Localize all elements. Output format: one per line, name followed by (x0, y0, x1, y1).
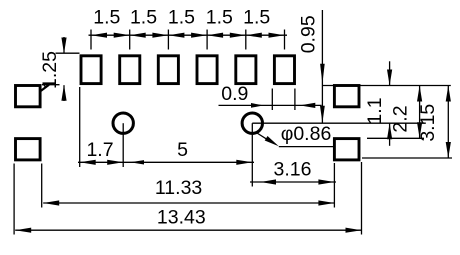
dim line 13.43 (15, 229, 361, 231)
ext line left-bottom-square left edge down (13, 164, 15, 235)
dimension line 1.5 chain (89, 34, 288, 36)
arrowheads 1.5 chain (91, 33, 285, 38)
dim line 0.95 vertical (321, 10, 323, 123)
pad P4 (top row solder pad) (197, 56, 217, 84)
pad P6 (top row solder pad) (274, 56, 294, 84)
label 11.33 (155, 177, 202, 199)
svg-text:2.2: 2.2 (390, 105, 412, 132)
arrow 0.9 right (points left toward pad6 right-edge tick) (300, 103, 316, 108)
svg-text:1.7: 1.7 (86, 139, 113, 161)
oblique tick near square corner (40, 85, 49, 92)
ext line squares top edge right (322, 85, 450, 87)
dim line 1.25 lower tail + arrow (61, 85, 66, 101)
svg-text:1.5: 1.5 (93, 7, 120, 29)
pad P3 (top row solder pad) (158, 56, 178, 84)
svg-text:1.25: 1.25 (39, 51, 61, 89)
leader line from hole H2 (257, 133, 270, 141)
ext line right-bottom-square left edge down (333, 163, 335, 208)
arrow 2.2 bottom (417, 122, 422, 138)
leader underline (279, 146, 334, 148)
mounting pad left-bottom (16, 139, 41, 160)
centerline H1 vertical (122, 123, 124, 167)
arrow 3.15 top (446, 86, 451, 102)
hole H2 (right circle) (242, 113, 262, 133)
svg-text:1.5: 1.5 (130, 7, 157, 29)
dim line 3.16 (250, 181, 336, 183)
leader arrowhead (265, 136, 279, 146)
label 3.15 (rotated) (417, 104, 439, 142)
label 3.16 (274, 158, 312, 180)
labels 1.5 x5 (93, 7, 270, 29)
pad P1 (top row solder pad) (81, 56, 101, 84)
dim line 0.9 (219, 104, 322, 106)
arrow 13.43 right (346, 228, 362, 233)
hole H1 (left circle) (113, 113, 133, 133)
arrow 1.7 right (107, 160, 123, 165)
dim 1.1 upper tail + arrow (387, 61, 392, 85)
dim line 2.2 (419, 86, 421, 139)
ext line square top (for 1.25) (42, 84, 60, 86)
ext tick pad6 left edge (271, 89, 273, 111)
ext line right-bottom-square bottom edge (362, 157, 452, 159)
label 0.95 (rotated) (298, 15, 320, 53)
arrow 11.33 left (43, 200, 59, 205)
label 13.43 (157, 207, 206, 229)
arrow 5 right (236, 160, 252, 165)
svg-text:1.5: 1.5 (243, 7, 270, 29)
extension ticks for 1.5 pitch chain (91, 30, 285, 50)
svg-text:11.33: 11.33 (155, 177, 202, 199)
dim line 1.7+5 (78, 161, 254, 163)
svg-text:1.1: 1.1 (364, 97, 386, 124)
svg-text:5: 5 (177, 139, 188, 161)
svg-text:1.5: 1.5 (206, 7, 233, 29)
arrow 1.7 left (80, 160, 96, 165)
arrow at circle centerline (320, 106, 325, 123)
mounting pad left-top (16, 86, 41, 107)
svg-text:13.43: 13.43 (157, 207, 206, 229)
label 5 (177, 139, 188, 161)
ext line pad1 left edge down (79, 87, 81, 167)
svg-text:3.16: 3.16 (274, 158, 312, 180)
label phi 0.86 (281, 123, 332, 145)
label 2.2 (rotated) (390, 105, 412, 132)
svg-text:3.15: 3.15 (417, 104, 439, 142)
arrow 3.16 right (318, 179, 334, 184)
dim line 11.33 (43, 202, 334, 204)
mounting pad right-top (334, 86, 359, 107)
ext tick pad6 right edge (294, 89, 296, 111)
svg-text:0.95: 0.95 (298, 15, 320, 53)
ext line left-bottom-square right edge down (41, 164, 43, 208)
ext line right-bottom-square right edge down (361, 162, 363, 235)
arrow 0.95 at pads-bottom (320, 64, 325, 84)
arrow 11.33 right (318, 200, 334, 205)
arrow 3.16 left (261, 179, 277, 184)
arrow 0.9 left (points right toward pad6 left-edge tick) (251, 103, 264, 108)
ext line right-bottom-square top edge (367, 137, 424, 139)
pad P2 (top row solder pad) (120, 56, 140, 84)
arrow 5 left (130, 160, 144, 164)
dim line 1.25 upper tail + arrow (61, 37, 66, 54)
label 0.9 (221, 83, 248, 105)
ext line pad1 top (for 1.25) (56, 52, 80, 54)
arrow 2.2 top (417, 86, 422, 102)
svg-text:1.5: 1.5 (168, 7, 195, 29)
svg-text:φ0.86: φ0.86 (281, 123, 332, 145)
dim 1.1 lower tail + arrow (387, 123, 392, 146)
svg-text:0.9: 0.9 (221, 83, 248, 105)
dim line 3.15 (447, 86, 449, 159)
mounting pad right-bottom (334, 139, 359, 160)
pad P5 (top row solder pad) (236, 56, 256, 84)
centerline H2 vertical (251, 123, 253, 186)
centerline H2 horizontal (252, 122, 425, 124)
label 1.1 (rotated) (364, 97, 386, 124)
arrow 3.15 bottom (446, 142, 451, 158)
label 1.25 (rotated) (39, 51, 61, 89)
label 1.7 (86, 139, 113, 161)
arrow 13.43 left (15, 228, 31, 233)
